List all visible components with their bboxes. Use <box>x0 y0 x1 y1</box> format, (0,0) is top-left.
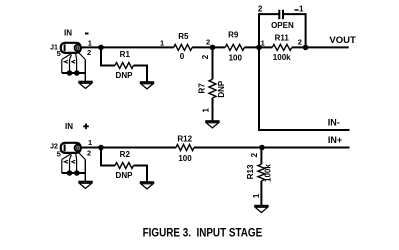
svg-text:1: 1 <box>88 38 92 47</box>
svg-text:R12: R12 <box>177 135 192 144</box>
svg-text:IN-: IN- <box>328 117 340 127</box>
svg-text:2: 2 <box>201 54 210 59</box>
svg-text:1: 1 <box>160 38 164 47</box>
svg-text:FIGURE 3. INPUT STAGE: FIGURE 3. INPUT STAGE <box>143 228 263 240</box>
svg-text:2: 2 <box>298 38 302 47</box>
svg-text:R7: R7 <box>198 83 207 94</box>
svg-text:0: 0 <box>180 52 185 61</box>
svg-text:1: 1 <box>261 38 265 47</box>
svg-text:IN: IN <box>65 122 73 131</box>
svg-text:100k: 100k <box>264 164 273 182</box>
svg-text:5: 5 <box>57 49 61 58</box>
svg-text:IN+: IN+ <box>328 135 342 145</box>
svg-text:2: 2 <box>258 4 263 13</box>
svg-text:1: 1 <box>88 138 92 147</box>
svg-text:R13: R13 <box>246 164 255 179</box>
svg-text:VOUT: VOUT <box>329 35 356 46</box>
svg-text:R2: R2 <box>120 150 131 159</box>
svg-text:100k: 100k <box>273 53 291 62</box>
svg-text:100: 100 <box>178 154 192 163</box>
svg-text:DNP: DNP <box>116 171 134 180</box>
svg-text:DNP: DNP <box>116 71 134 80</box>
svg-text:R11: R11 <box>275 34 290 43</box>
svg-text:R1: R1 <box>120 50 131 59</box>
svg-text:100: 100 <box>229 54 243 63</box>
svg-text:1: 1 <box>201 108 210 113</box>
svg-text:DNP: DNP <box>217 80 226 98</box>
svg-text:5: 5 <box>57 150 61 159</box>
svg-text:2: 2 <box>206 38 210 47</box>
svg-text:R9: R9 <box>228 31 239 40</box>
svg-text:1: 1 <box>252 193 261 198</box>
svg-text:IN: IN <box>64 28 72 37</box>
svg-text:2: 2 <box>87 148 91 157</box>
svg-text:R5: R5 <box>178 32 189 41</box>
svg-text:OPEN: OPEN <box>271 21 294 30</box>
svg-text:2: 2 <box>87 48 91 57</box>
svg-text:2: 2 <box>250 152 259 157</box>
svg-text:1: 1 <box>299 4 304 13</box>
